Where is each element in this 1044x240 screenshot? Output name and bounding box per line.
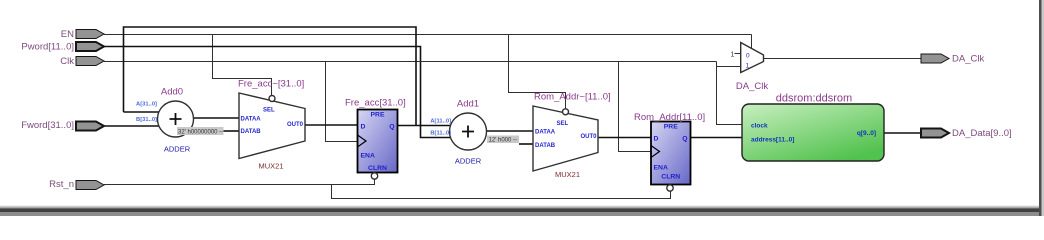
wire: Clk branch to Fre_acc clock (326, 62, 358, 142)
wire: Add0 out to MUX1 DATAA (193, 117, 239, 119)
svg-text:Rst_n: Rst_n (49, 179, 74, 190)
SEL inversion bubble on MUX2 (563, 109, 569, 115)
svg-text:PRE: PRE (371, 112, 385, 119)
svg-text:ENA: ENA (361, 153, 375, 160)
wire: const to MUX1 DATAB (224, 130, 240, 132)
mux U2 Rom_Addr~[11..0] (MUX21) (533, 106, 598, 171)
wire: Add0 A input (124, 111, 161, 113)
svg-text:Q: Q (389, 124, 394, 131)
register Rom_Addr[11..0] (DFF) (651, 122, 691, 185)
wire: EN branch to MUX2 SEL (509, 35, 566, 109)
svg-text:DATAB: DATAB (241, 129, 262, 135)
svg-text:1: 1 (731, 52, 735, 59)
svg-text:D: D (654, 136, 659, 143)
svg-text:Rom_Addr~[11..0]: Rom_Addr~[11..0] (534, 92, 611, 103)
svg-text:DATAA: DATAA (535, 130, 556, 136)
clrn bubble reg1 (371, 173, 377, 179)
register Fre_acc[31..0] (DFF) (358, 110, 398, 173)
wire: Rom_Addr Q to ddsrom address (691, 137, 743, 139)
svg-text:address[11..0]: address[11..0] (751, 137, 794, 144)
svg-text:ddsrom:ddsrom: ddsrom:ddsrom (776, 93, 852, 105)
block ddsrom:ddsrom (ROM) (742, 104, 884, 161)
wire: Fre_acc feedback top line (124, 27, 417, 126)
constant value 12'h000 (487, 136, 519, 144)
svg-text:B[31..0]: B[31..0] (136, 117, 157, 123)
svg-text:1: 1 (746, 63, 750, 70)
svg-text:Clk: Clk (60, 56, 74, 67)
svg-text:SEL: SEL (263, 108, 275, 114)
input pin Clk (76, 57, 104, 66)
svg-text:D: D (361, 124, 366, 131)
SEL inversion bubble on MUX1 (269, 96, 275, 102)
input pin Fword[31..0] (76, 122, 104, 131)
svg-text:Rom_Addr[11..0]: Rom_Addr[11..0] (634, 112, 705, 123)
wire: Fre_acc Q to Add1 A (398, 125, 453, 127)
adder Add1 (450, 113, 487, 150)
svg-text:A[11..0]: A[11..0] (430, 119, 451, 125)
svg-text:EN: EN (61, 29, 74, 40)
svg-text:DA_Data[9..0]: DA_Data[9..0] (952, 128, 1012, 139)
wire: Clk branch to ddsrom clock (717, 62, 743, 125)
output pin DA_Clk (921, 54, 949, 63)
svg-text:clock: clock (751, 123, 768, 130)
svg-text:DA_Clk: DA_Clk (736, 81, 768, 92)
wire: EN branch to DA_Clk mux select (751, 35, 753, 49)
wire: DA_Clk mux out to pin (764, 58, 922, 60)
output pin DA_Data[9..0] (921, 129, 949, 138)
input pin Rst_n (76, 181, 104, 190)
svg-text:MUX21: MUX21 (258, 162, 283, 171)
svg-text:CLRN: CLRN (368, 165, 387, 172)
svg-text:OUT0: OUT0 (287, 122, 304, 128)
svg-text:32' h00000000 --: 32' h00000000 -- (178, 130, 223, 136)
input pin EN (76, 30, 104, 39)
svg-text:12' h000 --: 12' h000 -- (489, 138, 518, 144)
wire: Clk net horizontal (104, 61, 717, 63)
svg-text:Fword[31..0]: Fword[31..0] (21, 120, 74, 131)
svg-text:A[31..0]: A[31..0] (136, 102, 157, 108)
svg-text:MUX21: MUX21 (555, 170, 580, 179)
svg-text:Q: Q (682, 136, 687, 143)
svg-text:DATAA: DATAA (241, 117, 262, 123)
mux DA_Clk (output clock select) (741, 43, 764, 73)
wire: const to MUX2 DATAB (519, 143, 533, 145)
wire: Pword bus to Add1 B (104, 47, 453, 138)
adder Add0 (158, 101, 194, 137)
svg-text:PRE: PRE (664, 124, 678, 131)
svg-text:Pword[11..0]: Pword[11..0] (21, 42, 74, 53)
wire: EN branch to MUX1 SEL (213, 35, 272, 96)
wire: MUX2 OUT0 to Rom_Addr D (598, 137, 651, 139)
svg-text:Add0: Add0 (161, 87, 183, 98)
wire: Rst_n net (104, 179, 375, 185)
svg-text:SEL: SEL (557, 121, 569, 127)
svg-text:Fre_acc~[31..0]: Fre_acc~[31..0] (238, 79, 304, 90)
svg-text:B[11..0]: B[11..0] (430, 131, 451, 137)
clrn bubble reg2 (667, 185, 673, 191)
wire: Add1 out to MUX2 DATAA (486, 130, 533, 132)
svg-text:ADDER: ADDER (164, 145, 191, 154)
svg-text:DA_Clk: DA_Clk (952, 54, 984, 65)
svg-text:OUT0: OUT0 (580, 134, 597, 140)
svg-text:0: 0 (746, 53, 750, 60)
wire: Clk branch to DA_Clk mux input 1 (717, 66, 741, 68)
wire: EN net horizontal (104, 34, 752, 36)
svg-text:q[9..0]: q[9..0] (857, 130, 876, 137)
wire: ddsrom q to DA_Data pin (884, 132, 921, 134)
wire: MUX1 OUT0 to Fre_acc D (305, 124, 358, 126)
svg-text:DATAB: DATAB (535, 143, 556, 149)
mux U1 Fre_acc~[31..0] (MUX21) (239, 93, 305, 159)
clock triangle reg1 (358, 135, 367, 147)
svg-text:ENA: ENA (654, 165, 668, 172)
constant value 32'h00000000 (177, 127, 224, 135)
wire: Fword bus to Add0 B (104, 125, 160, 127)
wire: Rst_n branch to Rom_Addr CLRN (332, 185, 671, 199)
wire: Clk branch to Rom_Addr clock (619, 62, 652, 152)
svg-text:ADDER: ADDER (455, 157, 482, 166)
svg-text:Fre_acc[31..0]: Fre_acc[31..0] (345, 98, 406, 109)
input pin Pword[11..0] (76, 42, 104, 51)
svg-text:CLRN: CLRN (661, 174, 680, 181)
window right border (1039, 0, 1042, 216)
window bottom border (0, 0, 1, 1)
clock triangle reg2 (651, 146, 660, 158)
svg-text:Add1: Add1 (457, 99, 479, 110)
